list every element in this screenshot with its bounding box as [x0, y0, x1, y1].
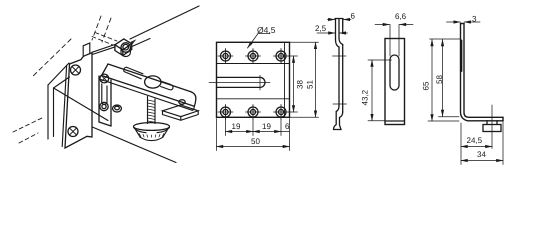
dim 43,2 [371, 60, 373, 121]
dashed projection line d3 [13, 117, 44, 132]
slotted bar top edge [108, 64, 191, 92]
ext line 58 bottom [439, 116, 460, 118]
panel top-left edge to plate [48, 63, 69, 85]
hole A5 [246, 105, 261, 120]
nut flange [483, 125, 501, 132]
bracket vertical leg left edge [98, 76, 100, 122]
plate B bend line [385, 120, 405, 122]
panel corner vertical edge [47, 85, 49, 139]
washer ellipse on bar [145, 76, 161, 88]
top tab block front faces [115, 44, 132, 56]
dim 34 [461, 160, 503, 162]
profile center tick upper [333, 55, 347, 57]
nut neck [487, 121, 497, 125]
slotted bar right end [191, 92, 196, 107]
svg-text:19: 19 [262, 122, 271, 131]
svg-text:50: 50 [251, 137, 260, 146]
leg right end [502, 117, 504, 121]
bracket vertical leg bottom edge [99, 122, 111, 126]
dashed projection line steep S2 [102, 18, 111, 42]
bracket vertical leg right edge [110, 80, 112, 126]
profile upper section [336, 19, 343, 41]
svg-text:19: 19 [232, 122, 241, 131]
svg-text:34: 34 [477, 150, 486, 159]
svg-text:58: 58 [435, 75, 444, 84]
dashed projection line d5 [95, 33, 117, 42]
slot edge-on band [460, 41, 462, 72]
profile top cap [335, 18, 343, 20]
wall plate side face line [62, 66, 66, 147]
ext lines right [289, 42, 319, 117]
profile jog [336, 39, 343, 48]
dim 19 second [253, 131, 281, 133]
foot knob bottom [140, 137, 162, 140]
top tab boss outer [121, 43, 130, 52]
plate A bend line lower [217, 98, 290, 100]
slot centerline [209, 75, 270, 90]
svg-text:3: 3 [472, 15, 477, 24]
screw head top-left [71, 65, 81, 75]
svg-text:65: 65 [422, 81, 431, 90]
wall plate top tab [83, 43, 90, 57]
open slot [217, 77, 266, 87]
dim 50 [217, 146, 290, 148]
dashed projection line d1 [31, 39, 71, 78]
foot knob top disc [134, 123, 170, 131]
foot knob skirt [136, 130, 168, 137]
top extension line [430, 38, 461, 40]
dim 6,6 [375, 24, 390, 26]
plate A outline [217, 42, 290, 117]
profile center tick lower [333, 103, 347, 105]
svg-text:43,2: 43,2 [361, 89, 370, 105]
svg-text:6: 6 [351, 12, 356, 21]
profile lower section [339, 45, 343, 113]
dim 38 [293, 56, 295, 112]
profile bottom [334, 112, 342, 130]
panel bottom edge diagonal [54, 88, 108, 120]
top tab boss cylinder bottom [121, 49, 130, 57]
ext lines bottom [217, 119, 290, 151]
panel edge wedge [131, 39, 137, 45]
dim 3 top [447, 21, 461, 23]
thread hatch [148, 100, 156, 122]
bar slot right part [161, 82, 173, 90]
shelf panel corner top face [163, 105, 199, 117]
hole A6 [274, 105, 289, 120]
wall plate face [65, 53, 92, 148]
panel thickness edge at block [132, 39, 150, 47]
bracket leg screw [100, 74, 109, 83]
svg-text:51: 51 [306, 80, 315, 89]
top tab boss inner [123, 44, 129, 50]
slotted bar left end [102, 64, 108, 76]
hole A3 [274, 49, 289, 64]
leg hole [100, 102, 108, 110]
bracket leg slot [102, 84, 107, 104]
svg-text:2,5: 2,5 [315, 24, 327, 33]
dim 58 [442, 40, 444, 117]
screw head bottom-left [68, 127, 78, 137]
nut centerline [491, 105, 493, 149]
dim 65 [431, 40, 433, 122]
bar end hole [179, 100, 185, 105]
plate B outline [385, 39, 405, 125]
leg outer face [461, 24, 504, 121]
svg-text:6: 6 [285, 122, 290, 131]
svg-text:24,5: 24,5 [467, 136, 483, 145]
ext line 65 bottom [428, 120, 459, 122]
plate B slot [390, 55, 399, 90]
foot knob knurl [139, 134, 164, 138]
dim 6 [281, 131, 290, 133]
leg inner face [464, 24, 503, 118]
dim 2,5 [317, 32, 335, 34]
dashed projection line d6 [92, 37, 113, 46]
hole A1 [218, 49, 233, 64]
svg-text:38: 38 [296, 80, 305, 89]
slotted bar bottom edge of face [102, 76, 195, 107]
leg top cap [461, 23, 465, 25]
threaded shaft [148, 97, 156, 124]
dashed projection line steep S1 [92, 16, 101, 40]
plate A inner bend line right [284, 42, 286, 117]
panel top edge (long diagonal) [130, 6, 199, 39]
hole A4 [218, 105, 233, 120]
dim 6 top [328, 19, 335, 21]
embossed hole boss [113, 105, 122, 112]
svg-text:Ø4,5: Ø4,5 [257, 25, 276, 35]
panel corner second edge [54, 77, 70, 137]
top tab block top face [115, 39, 132, 50]
foot knob disc lower edge [134, 128, 170, 133]
diameter leader [248, 34, 271, 49]
bar slot left part [124, 67, 143, 79]
shelf panel corner thickness [163, 111, 199, 121]
floor edge diagonal [92, 127, 176, 163]
dim 19 first [226, 131, 254, 133]
svg-text:6,6: 6,6 [395, 12, 407, 21]
dashed projection line d4 [19, 133, 38, 143]
hole A2 [246, 49, 261, 64]
profile lower jog [336, 106, 343, 118]
dim 24,5 [461, 146, 492, 148]
dim 51 [315, 42, 317, 117]
panel top edge continuation [92, 45, 115, 55]
bar thickness edge [101, 80, 192, 111]
bar thickness right end [192, 106, 194, 110]
plate A bend line upper [217, 63, 290, 65]
